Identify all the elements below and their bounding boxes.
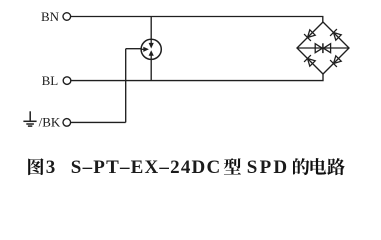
ground — [23, 111, 36, 126]
diode bridge frame — [297, 22, 349, 74]
svg-text:3: 3 — [46, 157, 56, 178]
diode D2 upper-right — [330, 29, 341, 40]
diode D1 upper-left — [304, 30, 315, 41]
svg-text:S–PT–EX–24DC: S–PT–EX–24DC — [71, 157, 222, 178]
diode D6 middle right — [323, 44, 330, 53]
terminal BL — [63, 77, 71, 85]
wire BK horizontal — [71, 121, 126, 123]
svg-text:SPD: SPD — [247, 157, 289, 178]
caption char 型 — [224, 158, 241, 174]
wire BK vertical riser — [125, 49, 127, 123]
svg-text:BN: BN — [41, 9, 60, 24]
wire BN line — [71, 17, 323, 23]
wire BL line — [71, 74, 323, 81]
svg-text:BL: BL — [42, 73, 59, 88]
bridge middle wire — [297, 47, 349, 49]
caption — [28, 157, 345, 178]
bridge middle cathode bar — [322, 43, 324, 53]
diode D5 middle left — [315, 44, 322, 53]
wire arrester top stub — [150, 17, 152, 40]
wire arrester bottom stub — [150, 59, 152, 80]
gas discharge tube U1 — [141, 39, 161, 59]
diode D4 lower-right — [330, 56, 341, 67]
caption char 电 — [310, 158, 326, 175]
wire BK to arrester — [126, 48, 142, 50]
diode D3 lower-left — [304, 55, 315, 66]
caption char 图 — [28, 158, 43, 175]
terminal BK — [63, 119, 71, 127]
caption char 路 — [327, 158, 345, 175]
svg-text:/BK: /BK — [39, 115, 61, 130]
caption char 的 — [293, 158, 309, 175]
terminal BN — [63, 13, 71, 21]
